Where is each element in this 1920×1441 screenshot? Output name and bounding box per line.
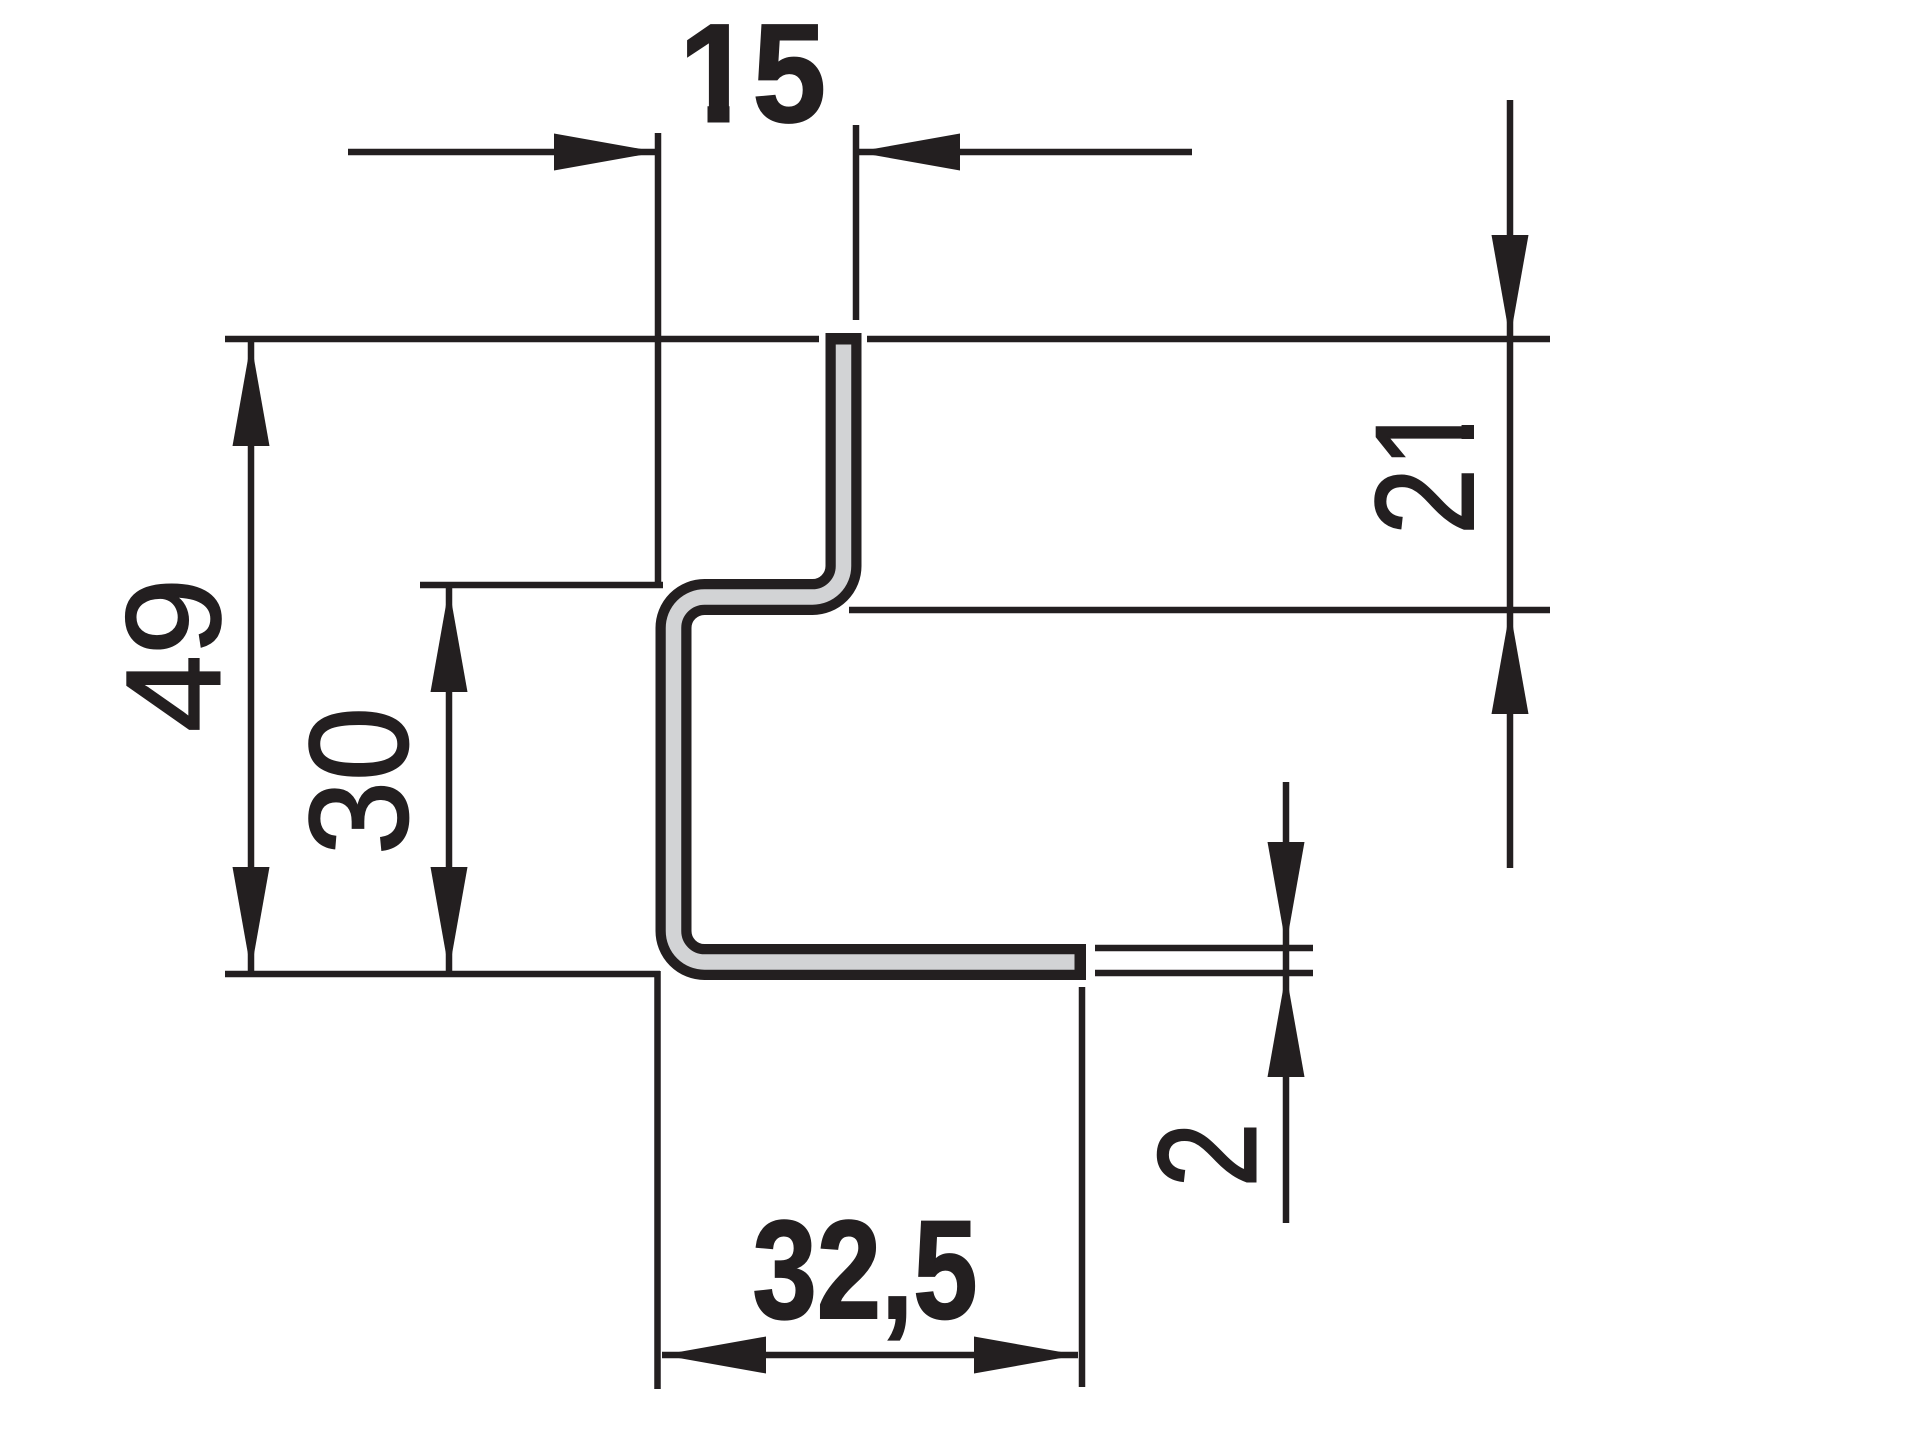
svg-text:32,5: 32,5 — [753, 1191, 978, 1348]
svg-text:2: 2 — [1129, 1123, 1286, 1188]
svg-text:15: 15 — [679, 0, 826, 152]
svg-text:21: 21 — [1346, 401, 1503, 535]
svg-text:49: 49 — [100, 578, 249, 732]
svg-text:30: 30 — [280, 707, 437, 855]
